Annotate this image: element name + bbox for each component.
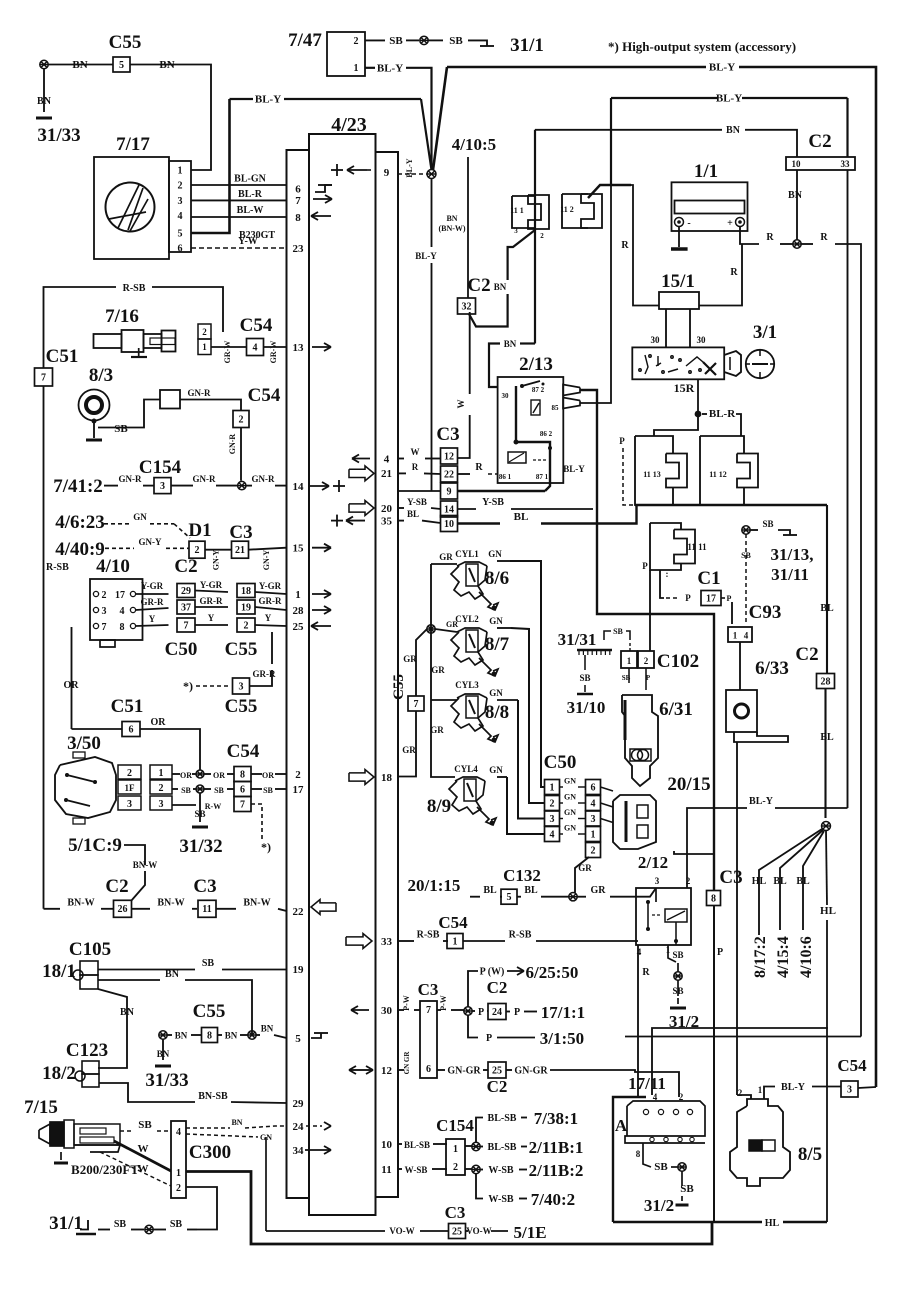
wire OR from C51-6 [140, 717, 200, 770]
wire VO-W right [466, 1223, 547, 1242]
svg-text:2: 2 [295, 769, 301, 781]
svg-text:4: 4 [384, 453, 390, 465]
svg-text:7: 7 [426, 1005, 431, 1016]
wire 17/11 pin4 up [652, 1028, 828, 1095]
svg-text:C50: C50 [165, 639, 198, 660]
svg-text:21: 21 [381, 468, 392, 480]
svg-text:8: 8 [711, 893, 716, 904]
wire 5/1C:9 BN-W [124, 845, 157, 901]
svg-text:P: P [478, 1007, 484, 1018]
svg-text:8: 8 [636, 1149, 641, 1159]
ECU right pin 30 [381, 1005, 393, 1017]
svg-text:2: 2 [644, 656, 649, 666]
svg-text:8/6: 8/6 [485, 568, 509, 589]
wire BN-W row3 [216, 898, 287, 912]
connector C55 pin 8 [202, 1028, 218, 1043]
svg-text:CYL3: CYL3 [455, 680, 479, 690]
svg-text:P: P [514, 1007, 520, 1018]
idle valve 8/5 body [712, 1099, 790, 1186]
svg-text:4/6:23: 4/6:23 [55, 512, 105, 533]
svg-text:BL-SB: BL-SB [488, 1142, 517, 1153]
connector C51 label 6 [111, 696, 144, 717]
ECU right pin 11 [381, 1164, 391, 1176]
ECU 4/23 main box [309, 134, 376, 1215]
connector C2 label 26 [105, 876, 128, 897]
ignition 3/50 pins b [150, 765, 172, 810]
svg-text:19: 19 [241, 602, 251, 613]
wire injector GN4 [489, 765, 544, 834]
ECU row13 arrow [312, 343, 331, 351]
svg-text:1: 1 [202, 342, 207, 352]
svg-text:SB: SB [114, 423, 128, 435]
svg-text:25: 25 [452, 1226, 462, 1237]
wire C93 down [739, 642, 741, 690]
component 17/11 body [625, 1092, 705, 1159]
svg-text:1: 1 [176, 1168, 181, 1179]
svg-text:BL: BL [796, 876, 810, 887]
diode D1 box [189, 541, 205, 558]
wire C55 to 7/17 pin1 [48, 65, 211, 171]
svg-text:C55: C55 [391, 674, 407, 700]
wire 633 R down to 15/1 [621, 185, 659, 306]
ECU row1 arrow [312, 590, 331, 598]
ECU left pin 24 [293, 1121, 305, 1133]
wire 15/1 left 30 [651, 309, 667, 347]
svg-text:P-W: P-W [439, 995, 448, 1011]
ECU row8 arrow [311, 212, 331, 220]
wire SB to C54-6 [204, 786, 234, 795]
svg-text:SB: SB [613, 627, 623, 636]
svg-text:HL: HL [752, 876, 767, 887]
svg-text:4: 4 [744, 631, 749, 641]
connector C55 label inj [391, 674, 407, 700]
ECU row14 plus-arrow [310, 480, 345, 492]
wire 7/17-2 BL-GN [191, 174, 287, 186]
svg-text:87 1: 87 1 [536, 473, 549, 481]
wire ECU pin9 to splice [398, 158, 427, 177]
ground 31/33 b [145, 1066, 188, 1091]
svg-text:34: 34 [293, 1145, 305, 1157]
svg-text:11 12: 11 12 [709, 470, 727, 479]
svg-text:R: R [730, 267, 738, 278]
wire 17/11 box left [613, 1097, 646, 1222]
ECU row35 plus-arrow [331, 515, 365, 527]
wire 18/1 to 18/2 [98, 989, 135, 1068]
svg-text:31/10: 31/10 [567, 698, 606, 717]
idle valve 8/5 pins [738, 1085, 763, 1098]
svg-text:7: 7 [41, 372, 46, 383]
connector C2 label 24 [487, 978, 508, 997]
svg-text:OR: OR [180, 771, 192, 780]
distributor pin 5 [178, 229, 183, 240]
ECU row9 plus-arrow [331, 164, 374, 176]
svg-text:35: 35 [381, 515, 393, 527]
label 7/41:2 [53, 476, 103, 497]
svg-text:4: 4 [253, 342, 258, 353]
svg-text:6/25:50: 6/25:50 [526, 963, 579, 982]
distributor 7/17 pin strip [169, 161, 191, 252]
svg-text:21: 21 [235, 545, 245, 556]
wire BN down from splice [37, 69, 52, 112]
wire C102-1 SB down [622, 668, 651, 683]
wire 17 Y-GR [136, 581, 169, 594]
svg-text:2/11B:1: 2/11B:1 [529, 1138, 584, 1157]
connector C3 pins 12-10 [441, 448, 458, 532]
wire P to C2-24 [472, 1007, 488, 1018]
connector C300 box [171, 1121, 186, 1198]
svg-text:C55: C55 [225, 696, 258, 717]
svg-text:2: 2 [239, 414, 244, 425]
svg-text:7: 7 [102, 622, 107, 633]
wire 11/11 P to C1 [660, 570, 691, 603]
wire W-SB row11 [398, 1165, 447, 1175]
relay 2/13 thick path [514, 386, 553, 491]
svg-text:*): *) [261, 840, 271, 854]
component 17/11 label [628, 1074, 666, 1093]
svg-text:29: 29 [293, 1098, 305, 1110]
svg-text:31/31: 31/31 [558, 630, 597, 649]
svg-text:GN-Y: GN-Y [139, 537, 162, 547]
wire C300-4 BN dashed [186, 1118, 287, 1128]
svg-text:R: R [621, 240, 629, 251]
star note mid [183, 679, 230, 693]
svg-text:BL-Y: BL-Y [749, 796, 774, 807]
svg-text:W: W [456, 400, 466, 409]
wire C54-7 dashed [251, 804, 271, 854]
svg-text:3: 3 [127, 799, 132, 810]
wire 7/17-3 BL-R [191, 189, 287, 200]
svg-text:8: 8 [207, 1030, 212, 1041]
svg-text:14: 14 [444, 504, 454, 515]
splice 31/2 a [674, 972, 682, 980]
wire C55-7 GR up [403, 629, 427, 696]
wire BL vert C2-28 [820, 505, 834, 674]
ignition coil ground [671, 227, 688, 250]
ECU left pin 13 [293, 342, 305, 354]
svg-text:20: 20 [381, 503, 393, 515]
svg-text:C2: C2 [487, 1077, 508, 1096]
ignition key [724, 351, 741, 376]
svg-text:18/2: 18/2 [42, 1063, 76, 1084]
wire SB splice row [172, 786, 196, 795]
wire R-SB row b [463, 930, 638, 942]
svg-text:2/11B:2: 2/11B:2 [529, 1161, 584, 1180]
svg-text:C2: C2 [795, 644, 818, 665]
wire BL c132 [470, 885, 502, 897]
svg-text:C54: C54 [227, 741, 260, 762]
connector C154 box [446, 1139, 465, 1175]
connector C3 label 8 [719, 867, 742, 888]
wire BN gnd c55 [157, 1039, 170, 1060]
svg-text:4: 4 [550, 829, 555, 840]
svg-text:6: 6 [129, 724, 134, 735]
wire fan HL [752, 829, 822, 935]
wire GN-GR row [398, 1051, 420, 1075]
svg-text:BL-GN: BL-GN [234, 174, 266, 185]
svg-text:1: 1 [295, 589, 301, 601]
wire Y 3 [255, 613, 287, 626]
wire C300-1 thick [186, 1172, 712, 1245]
svg-text:C2: C2 [174, 556, 197, 577]
svg-text:1: 1 [453, 1144, 458, 1155]
wire R to 2/13 [457, 462, 498, 474]
wire GN-GR row b [437, 1066, 488, 1077]
svg-text:9: 9 [384, 167, 390, 179]
svg-text:R-SB: R-SB [46, 562, 69, 573]
wire C50-2 GR down [575, 857, 592, 893]
connector C3 pin 18 [237, 584, 255, 598]
ignition coil 1/1 label [694, 161, 718, 182]
connector C1 label [697, 568, 720, 589]
svg-text:3: 3 [159, 799, 164, 810]
ECU row2 block-arrow [349, 770, 374, 785]
wire 7/47-2 SB [365, 35, 419, 47]
spark plug 6/31 label [659, 699, 693, 720]
svg-text:SB: SB [579, 673, 590, 683]
svg-text:31/33: 31/33 [145, 1070, 188, 1091]
svg-text:C55: C55 [225, 639, 258, 660]
svg-text:C54: C54 [837, 1056, 867, 1075]
wire GN-Y dashed [105, 537, 190, 548]
wire SB 31/2a [672, 980, 683, 1004]
svg-text:9: 9 [447, 486, 452, 497]
svg-text:Y: Y [208, 613, 215, 623]
ECU row12 double-arrow [349, 1066, 373, 1074]
ECU left pin 29 [293, 1098, 305, 1110]
svg-text:CYL1: CYL1 [455, 549, 479, 559]
wire BL-Y to C2-33 [846, 98, 848, 157]
svg-text:86 2: 86 2 [540, 430, 553, 438]
svg-text:C55: C55 [193, 1001, 226, 1022]
splice GR c132 [569, 893, 577, 901]
svg-text:C3: C3 [193, 876, 216, 897]
ground 31/2 b [644, 1196, 689, 1215]
svg-text:Y-GR: Y-GR [259, 581, 282, 591]
svg-text:19: 19 [293, 964, 305, 976]
wire BL-R right branch [702, 414, 741, 436]
svg-text:GN: GN [133, 512, 147, 522]
wire R-line to 3/1:50 [625, 1036, 861, 1038]
svg-text:SB: SB [263, 786, 273, 795]
relay 2/13 label [519, 354, 553, 375]
ECU right pin 33 [381, 936, 393, 948]
label B200/230FT [71, 1162, 139, 1177]
ground 7/15 [54, 1162, 68, 1165]
svg-text:BL-Y: BL-Y [255, 94, 281, 106]
svg-text:SB: SB [181, 786, 191, 795]
svg-text:BN: BN [788, 190, 803, 201]
relay 2/12 box [636, 888, 691, 945]
svg-text:29: 29 [181, 586, 191, 597]
ECU left pin 19 [293, 964, 305, 976]
svg-text:SB: SB [202, 958, 215, 969]
svg-text:31/33: 31/33 [37, 125, 80, 146]
wire splice down BL-Y [415, 179, 437, 492]
svg-text:14: 14 [293, 481, 305, 493]
svg-text:18: 18 [241, 586, 251, 597]
wire BL-SB row10 b [465, 1145, 472, 1147]
connector C3 label 7-6 [418, 980, 439, 999]
svg-text:2: 2 [102, 590, 107, 601]
wire BN top [535, 125, 797, 157]
svg-text:BL-Y: BL-Y [377, 62, 403, 74]
wire injector GN3 [489, 688, 544, 819]
label 20/1:15 [408, 876, 461, 895]
label 4/10:5 [452, 135, 496, 154]
svg-text:R-SB: R-SB [509, 930, 532, 941]
svg-text:BN: BN [165, 969, 180, 980]
wire injector GN1 [488, 549, 544, 787]
ignition 3/50 pins a [118, 765, 141, 810]
ECU left pin 23 [293, 243, 305, 255]
svg-text:Y: Y [265, 613, 272, 623]
wire 7/16-1 to C54 [211, 341, 246, 364]
label 8/17:2 [752, 936, 769, 978]
svg-text:BN: BN [157, 1049, 170, 1059]
temp sensor 7/16 body [94, 330, 176, 357]
connector C55 label [109, 32, 142, 53]
idle valve 8/5 label [798, 1144, 822, 1165]
svg-text:7/40:2: 7/40:2 [531, 1190, 575, 1209]
wire BL-SB right [480, 1138, 583, 1157]
svg-text:C3: C3 [436, 424, 459, 445]
connector C55 pin 5 [113, 57, 130, 72]
wire W-SB right [480, 1161, 583, 1180]
connector C2 pin 29 [177, 584, 195, 598]
svg-text:1: 1 [354, 63, 359, 74]
distributor 7/17 rotor [106, 183, 155, 232]
wire BN branch vert [266, 1126, 287, 1137]
diode D1 label [188, 520, 211, 541]
suppressor 11/11 [642, 523, 707, 579]
svg-text:31/1: 31/1 [510, 35, 544, 56]
svg-text:C132: C132 [503, 866, 541, 885]
wire injector GN2 [489, 616, 544, 803]
svg-text:7/17: 7/17 [116, 134, 150, 155]
connector C3 label 25 [445, 1203, 466, 1222]
splice OR [196, 770, 204, 778]
connector C55 pin 3b [233, 678, 250, 694]
connector C3 pin 8 [707, 891, 721, 906]
connector C154 label b [436, 1116, 474, 1135]
label 31/13 31/11 [771, 545, 814, 584]
svg-text:4/23: 4/23 [331, 114, 367, 136]
connector C54 pin 3b [841, 1081, 858, 1097]
svg-text:GN: GN [489, 688, 503, 698]
svg-text:*): *) [183, 679, 193, 693]
wire C2-10 BN down [788, 170, 803, 240]
svg-text:C54: C54 [240, 315, 273, 336]
svg-text:BL-Y: BL-Y [563, 464, 585, 474]
connector C1 pin 17 [701, 591, 721, 606]
wire R-SB left long [44, 386, 70, 909]
ECU row4 arrow [352, 455, 370, 463]
relay 7/47 box [327, 32, 365, 76]
injector CYL4 8/9 [427, 764, 496, 826]
distributor pin 4 [178, 211, 183, 222]
svg-text:1: 1 [758, 1085, 763, 1095]
svg-text:C300: C300 [189, 1142, 231, 1163]
svg-text:BL: BL [524, 885, 538, 896]
ECU row20 block-arrow [349, 501, 374, 516]
wire C300-4 GN dashed [186, 1133, 272, 1142]
svg-text:32: 32 [462, 301, 472, 312]
svg-text:5/1C:9: 5/1C:9 [68, 835, 122, 856]
wire 20/15 down to P line [674, 851, 714, 854]
svg-text:1/1: 1/1 [694, 161, 718, 182]
wire Y-GR 3 [255, 581, 287, 594]
svg-text:3: 3 [102, 606, 107, 617]
svg-text:GN-Y: GN-Y [212, 550, 221, 571]
lamp 18/1 label [42, 961, 76, 982]
connector 4/10 internal pins [93, 590, 106, 633]
wire C300-2 [186, 1187, 217, 1230]
svg-text:7/41:2: 7/41:2 [53, 476, 103, 497]
wire BL thick right [458, 505, 637, 524]
svg-text:BN-W: BN-W [67, 898, 94, 909]
svg-text:2: 2 [738, 1088, 743, 1098]
svg-text:28: 28 [821, 676, 831, 687]
svg-text:GN: GN [489, 616, 503, 626]
wire 18/2 BN-SB [99, 1083, 287, 1103]
svg-text:4: 4 [653, 1092, 658, 1102]
svg-text:C54: C54 [438, 913, 468, 932]
svg-text:2/12: 2/12 [638, 853, 668, 872]
ECU left pin 15 [293, 543, 305, 555]
ECU row24 dashed-arrow [306, 1122, 331, 1130]
svg-text:22: 22 [293, 906, 305, 918]
svg-text:HL: HL [765, 1218, 780, 1229]
svg-text:C3: C3 [229, 522, 252, 543]
ECU row6 hook-arrow [315, 185, 332, 192]
svg-text:5: 5 [178, 229, 183, 240]
wire 6/33 to 8/5-2 [736, 742, 738, 1095]
svg-text:GR: GR [439, 552, 453, 562]
connector C3 pin 11 [198, 900, 216, 917]
svg-text:4/10:5: 4/10:5 [452, 135, 496, 154]
wire 8/5-2 up [737, 1095, 751, 1099]
wire Y-SB right [457, 497, 593, 509]
connector C2 pin 37 [177, 600, 195, 614]
svg-text:OR: OR [64, 680, 80, 691]
horn 8/3 label [89, 365, 113, 386]
svg-text:P: P [642, 561, 648, 571]
svg-text:5: 5 [507, 892, 512, 903]
distributor 7/17 body [94, 157, 169, 259]
ground 8/3 [86, 439, 102, 442]
wire D1 to C3-21 [205, 550, 232, 571]
svg-text:31/11: 31/11 [771, 565, 809, 584]
connector C93 label [749, 602, 782, 623]
wire VO-W row [266, 1226, 449, 1236]
connector C132 label [503, 866, 541, 885]
relay 2/13 pin labels [499, 386, 559, 481]
svg-text:10: 10 [381, 1139, 393, 1151]
connector C2 box 10 33 [786, 157, 855, 170]
svg-text:BN-W: BN-W [133, 860, 158, 870]
ECU row5 hook [311, 1033, 328, 1038]
svg-text:C102: C102 [657, 651, 699, 672]
throttle 20/15 label [667, 774, 710, 795]
svg-text:BL-SB: BL-SB [488, 1113, 517, 1124]
wire GR-R 3 [255, 596, 287, 610]
svg-text:85: 85 [552, 404, 560, 412]
svg-text:1: 1 [591, 829, 596, 840]
svg-text:P: P [685, 593, 691, 603]
wire BN to 2/13 pin30 [489, 339, 535, 387]
connector 4/10 label [96, 556, 130, 577]
svg-text:4: 4 [176, 1127, 181, 1138]
